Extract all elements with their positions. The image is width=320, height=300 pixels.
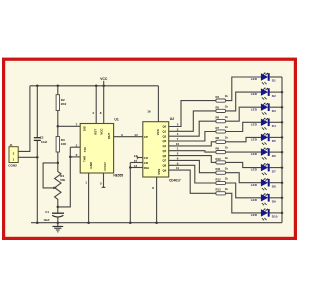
svg-text:Q9: Q9 (162, 168, 166, 172)
wire R6 to LED D3 (226, 107, 262, 121)
wire LED D3 cathode to bus (269, 106, 282, 108)
svg-text:VCC: VCC (100, 128, 104, 135)
wire CD4017 pin8 VSS to ground rail (156, 177, 158, 223)
wire Q8 to resistor R12 (169, 165, 216, 183)
svg-text:J1: J1 (10, 143, 14, 147)
svg-text:D5: D5 (272, 139, 276, 143)
svg-text:Q7: Q7 (162, 159, 166, 163)
wire ground bottom rail (31, 222, 282, 224)
node cathode bus junction D9 (281, 197, 284, 200)
svg-text:R7: R7 (216, 126, 220, 130)
LED D10 (251, 209, 269, 221)
svg-text:R12: R12 (216, 177, 222, 181)
resistor R7 (216, 125, 229, 133)
resistor R8 (216, 135, 229, 143)
svg-text:CD4017: CD4017 (169, 179, 181, 183)
svg-text:1k: 1k (225, 187, 229, 191)
node VCC rail junction R2 (57, 85, 60, 88)
svg-text:16: 16 (147, 110, 151, 114)
svg-text:R9: R9 (216, 147, 220, 151)
svg-text:1k: 1k (225, 166, 229, 170)
svg-text:VCC: VCC (100, 77, 108, 81)
resistor R11 (216, 166, 229, 174)
wire Q1 to resistor R5 (169, 111, 216, 131)
svg-text:4: 4 (92, 111, 94, 115)
node cathode bus junction D6 (281, 151, 284, 154)
wire R13 to LED D10 (226, 193, 262, 213)
node R3 R4 junction (57, 162, 60, 165)
wire Q4 to resistor R8 (169, 142, 216, 146)
wire R4 wiper bracket (43, 163, 58, 188)
svg-text:Q2: Q2 (162, 134, 166, 138)
wire reset tie to ground rail (129, 168, 131, 223)
wire R7 to LED D4 (226, 122, 262, 131)
LED D2 (251, 88, 269, 100)
svg-text:2K2: 2K2 (61, 102, 67, 106)
node VCC rail junction pin4 (95, 85, 98, 88)
resistor R9 (216, 146, 229, 154)
wire LED D9 cathode to bus (269, 197, 282, 199)
node ground rail junction CD4017 VSS (155, 221, 158, 224)
svg-text:1k: 1k (225, 115, 229, 119)
LED D7 (251, 163, 269, 175)
svg-text:D7: D7 (272, 169, 276, 173)
resistor R6 (216, 115, 229, 123)
svg-text:Q3: Q3 (162, 139, 166, 143)
wire Q6 to resistor R10 (169, 156, 216, 163)
svg-text:11: 11 (176, 166, 179, 170)
svg-text:U1: U1 (114, 118, 118, 122)
node cathode bus junction D3 (281, 106, 284, 109)
node THR junction (69, 156, 72, 159)
svg-text:R10: R10 (216, 157, 222, 161)
wire LED D8 cathode to bus (269, 182, 282, 184)
wire LED D5 cathode to bus (269, 136, 282, 138)
svg-text:THR: THR (83, 155, 87, 162)
wire VCC rail to R2 (57, 86, 59, 95)
svg-text:D9: D9 (272, 200, 276, 204)
node CON2 pin1 junction (36, 156, 39, 159)
svg-text:7: 7 (76, 122, 78, 126)
LED D6 (251, 148, 269, 160)
svg-text:Q0: Q0 (162, 125, 166, 129)
svg-text:1k: 1k (225, 125, 229, 129)
wire 555 pin8 VCC to rail (103, 86, 105, 124)
svg-text:D8: D8 (272, 184, 276, 188)
wire R8 to LED D5 (226, 137, 262, 141)
connector J1 CON2 (9, 143, 18, 162)
wire Q3 to resistor R7 (169, 132, 216, 142)
resistor R12 (216, 177, 229, 185)
svg-text:Q4: Q4 (162, 144, 166, 148)
wire CON2 pin2 to VCC rail (18, 86, 30, 152)
wire Q9 to resistor R13 (169, 170, 216, 193)
LED D8 (251, 178, 269, 190)
svg-text:CON2: CON2 (8, 164, 17, 168)
svg-text:LED: LED (251, 152, 258, 156)
node cathode bus junction D7 (281, 166, 284, 169)
R4 wiper arrow (53, 187, 57, 190)
wire R2 to DIS node (57, 111, 59, 127)
node cathode bus junction D2 (281, 91, 284, 94)
wire Q7 to resistor R11 (169, 160, 216, 172)
wire CD4017 pin16 VCC to rail (157, 86, 159, 122)
svg-text:LED: LED (251, 77, 258, 81)
resistor R5 (216, 105, 229, 113)
LED D9 (251, 193, 269, 205)
wire 555 pin4 RST to rail (95, 86, 97, 124)
svg-text:RST: RST (93, 129, 97, 135)
wire LED D1 cathode to bus (269, 76, 282, 78)
op-amp U1 NE555 body (80, 124, 113, 174)
wire LED D2 cathode to bus (269, 91, 282, 93)
svg-text:1k: 1k (225, 177, 229, 181)
ground symbol (52, 223, 63, 232)
node cathode bus junction D8 (281, 181, 284, 184)
node ground rail junction CD4017 reset (129, 221, 132, 224)
node R4 C1 junction (57, 206, 60, 209)
svg-text:LED: LED (251, 92, 258, 96)
resistor R3 (56, 137, 67, 153)
svg-text:1k: 1k (225, 105, 229, 109)
svg-text:LED: LED (251, 168, 258, 172)
wire Q5 to resistor R9 (169, 151, 216, 152)
wire C2 branch lower (36, 141, 38, 223)
svg-text:D4: D4 (272, 124, 276, 128)
svg-text:1k: 1k (225, 94, 229, 98)
svg-text:LED: LED (251, 107, 258, 111)
svg-text:8: 8 (100, 111, 102, 115)
border frame (4, 59, 296, 238)
wire LED cathode bus (281, 77, 283, 223)
wire 555 pin5 CVOLT stub (102, 173, 106, 187)
svg-text:D6: D6 (272, 154, 276, 158)
wire R3 top (57, 126, 59, 136)
svg-text:1k: 1k (225, 146, 229, 150)
power symbol VCC (100, 77, 108, 86)
node CR INH junction (129, 166, 132, 169)
svg-text:D2: D2 (272, 94, 276, 98)
node cathode bus junction D10 (281, 212, 284, 215)
wire 555 pin6 THR (70, 156, 80, 158)
wire THR down to C1 node (58, 157, 71, 207)
wire Q0 to resistor R4 (169, 101, 216, 127)
svg-text:6: 6 (76, 153, 78, 157)
wire VCC top rail (30, 85, 159, 87)
svg-text:R8: R8 (216, 136, 220, 140)
svg-text:LED: LED (251, 138, 258, 142)
wire R11 to LED D8 (226, 173, 262, 183)
resistor R10 (216, 156, 229, 164)
svg-text:LED: LED (251, 183, 258, 187)
potentiometer R4 (55, 163, 66, 207)
svg-text:NE555: NE555 (113, 174, 123, 178)
svg-text:VCC: VCC (156, 128, 160, 135)
svg-text:Q6: Q6 (162, 154, 166, 158)
wire LED D6 cathode to bus (269, 151, 282, 153)
svg-text:10: 10 (176, 142, 180, 146)
svg-text:Q5: Q5 (162, 149, 166, 153)
wire R5 to LED D2 (226, 92, 262, 111)
svg-text:DIS: DIS (83, 126, 87, 131)
svg-text:CVOLT: CVOLT (103, 162, 107, 171)
svg-text:TRI: TRI (83, 147, 87, 152)
wire CD4017 pin15 CR (130, 162, 143, 164)
wire LED D4 cathode to bus (269, 121, 282, 123)
svg-text:10K: 10K (61, 142, 67, 146)
wire CD4017 pin12 CO stub (137, 156, 143, 160)
wire R10 to LED D7 (226, 162, 262, 167)
svg-text:C1: C1 (45, 210, 49, 214)
wire CON2 pin1 to ground branch (18, 156, 37, 158)
wire 555 pin1 GND (88, 173, 90, 223)
resistor R13 (216, 187, 229, 195)
LED D5 (251, 133, 269, 145)
wire R3 bottom (57, 152, 59, 163)
counter U2 CD4017 body (143, 122, 169, 177)
svg-text:U2: U2 (170, 117, 174, 121)
svg-text:14: 14 (134, 133, 138, 137)
LED D3 (251, 103, 269, 115)
wire R9 to LED D6 (226, 151, 262, 153)
wire LED D10 cathode to bus (269, 212, 282, 214)
resistor R4 (216, 94, 229, 102)
node VCC rail junction pin8 (102, 85, 105, 88)
wire C2 branch upper (36, 86, 38, 138)
LED D4 (251, 118, 269, 130)
svg-text:R4: R4 (216, 95, 220, 99)
node ground rail junction C2 (36, 221, 39, 224)
svg-text:R11: R11 (216, 167, 221, 171)
node ground rail junction 555 pin1 (87, 221, 90, 224)
svg-text:15: 15 (134, 159, 138, 163)
svg-text:GND: GND (89, 161, 93, 169)
node ground rail junction C1 (57, 221, 60, 224)
wire 555 pin3 OUT to CD4017 pin14 (114, 136, 143, 138)
wire C1 to ground rail (57, 218, 59, 223)
svg-text:LED: LED (251, 198, 258, 202)
wire 555 pin2 TRI (70, 146, 80, 148)
wire LED D7 cathode to bus (269, 167, 282, 169)
svg-text:D1: D1 (272, 79, 276, 83)
svg-text:10uF: 10uF (41, 140, 48, 144)
svg-text:5: 5 (100, 181, 102, 185)
node DIS junction (57, 125, 60, 128)
wire R4 to C1 (57, 207, 59, 213)
svg-text:C2: C2 (40, 136, 44, 140)
svg-text:R13: R13 (216, 188, 222, 192)
capacitor C2 (34, 136, 48, 144)
svg-text:R6: R6 (216, 116, 220, 120)
svg-text:12: 12 (134, 154, 138, 158)
wire CD4017 pin13 INH (130, 167, 143, 169)
svg-text:D10: D10 (272, 215, 278, 219)
capacitor C1 (43, 210, 64, 222)
wire CR INH tie (129, 163, 131, 168)
svg-text:CP: CP (144, 135, 148, 139)
wire DIS node to 555 pin7 (58, 125, 80, 127)
resistor R2 (56, 95, 67, 111)
wire R4 to LED D1 (226, 77, 262, 101)
svg-text:50k: 50k (60, 178, 65, 182)
node VCC rail junction C2 (36, 85, 39, 88)
svg-text:D3: D3 (272, 109, 276, 113)
svg-text:LED: LED (251, 213, 258, 217)
svg-text:Q1: Q1 (162, 130, 166, 134)
svg-text:CO: CO (144, 156, 149, 160)
svg-text:INH: INH (144, 166, 149, 170)
svg-text:Q8: Q8 (162, 164, 166, 168)
node cathode bus junction D5 (281, 136, 284, 139)
svg-text:1k: 1k (225, 156, 229, 160)
svg-text:1: 1 (85, 181, 87, 185)
node cathode bus junction D4 (281, 121, 284, 124)
LED D1 (251, 73, 269, 85)
svg-text:LED: LED (251, 122, 258, 126)
svg-text:OUT: OUT (107, 133, 111, 140)
svg-text:VSS: VSS (157, 169, 161, 175)
wire R12 to LED D9 (226, 183, 262, 198)
svg-text:R5: R5 (216, 105, 220, 109)
svg-text:13: 13 (134, 164, 138, 168)
wire TRI to THR vertical (69, 147, 71, 157)
svg-text:1k: 1k (225, 135, 229, 139)
svg-text:10uF: 10uF (43, 218, 50, 222)
svg-text:2: 2 (76, 143, 78, 147)
svg-text:3: 3 (121, 133, 123, 137)
wire Q2 to resistor R6 (169, 121, 216, 136)
